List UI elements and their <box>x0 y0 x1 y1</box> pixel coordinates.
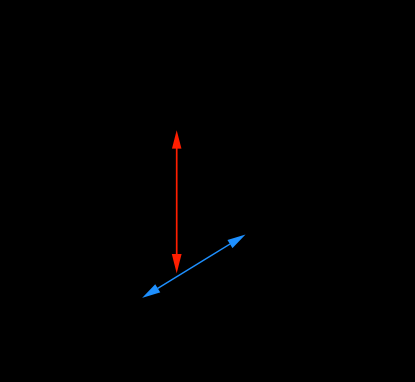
red vertical double-headed arrow <box>172 130 182 273</box>
wire: red shaft <box>176 148 178 255</box>
blue diagonal double-headed arrow <box>142 235 245 298</box>
blue upper-right arrowhead <box>227 235 245 249</box>
wire: blue shaft <box>157 243 230 289</box>
blue lower-left arrowhead <box>142 284 160 298</box>
red top arrowhead <box>172 130 182 148</box>
red bottom arrowhead <box>172 254 182 273</box>
